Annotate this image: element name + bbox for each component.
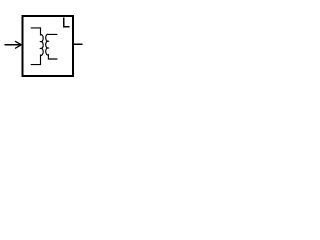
box U1 body bbox=[23, 16, 74, 76]
inductor secondary winding bbox=[46, 34, 58, 59]
input arrowhead bbox=[15, 41, 21, 48]
label L bbox=[64, 17, 70, 26]
wire output stub bbox=[73, 43, 83, 45]
inductor primary winding bbox=[31, 28, 44, 65]
wire input lead bbox=[5, 44, 21, 46]
